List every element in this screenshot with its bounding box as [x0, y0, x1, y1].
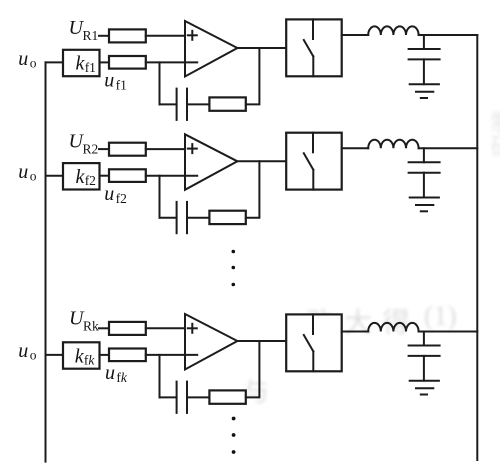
- wire: resistor to op-amp inverting input (minus lead): [146, 354, 197, 356]
- ellipsis dots below row k: [232, 417, 236, 454]
- svg-text:fk: fk: [116, 370, 128, 385]
- node u_o (output bus tap, row 2): [18, 161, 37, 184]
- svg-text:R2: R2: [83, 142, 99, 157]
- op-amp Ak: [185, 314, 237, 370]
- wire: bus to kfk block: [46, 354, 64, 356]
- ground: [410, 198, 439, 212]
- wire: capacitor to ground: [423, 59, 425, 84]
- svg-text:u: u: [18, 161, 28, 183]
- svg-text:u: u: [104, 183, 114, 205]
- wire: feedback resistor up to op-amp output: [246, 341, 260, 397]
- wire: inductor to right-hand bus: [419, 331, 478, 333]
- capacitor (output filter): [409, 49, 440, 59]
- wire: switch block to inductor: [342, 331, 369, 333]
- wire: capacitor to ground: [423, 173, 425, 198]
- ground: [410, 381, 439, 395]
- wire: bus to kf2 block: [46, 175, 64, 177]
- wire: inductor to right-hand bus: [419, 34, 478, 36]
- svg-text:u: u: [18, 48, 28, 70]
- wire: tap to feedback capacitor: [160, 217, 177, 219]
- wire: op-amp output to switch block: [237, 340, 286, 342]
- inductor L1: [368, 26, 418, 35]
- ellipsis dots between row 2 and row k: [232, 250, 236, 287]
- wire: resistor to op-amp noninverting input: [146, 327, 185, 329]
- gain block kf2: [63, 163, 100, 189]
- gain block kfk: [63, 342, 100, 368]
- resistor (u_f1 input): [109, 56, 146, 69]
- svg-text:f1: f1: [116, 78, 127, 93]
- capacitor C2 (feedback): [177, 202, 187, 233]
- resistor (U_R2 input): [109, 143, 146, 156]
- switch Sk (chopper block): [286, 314, 342, 371]
- wire: tap to feedback capacitor: [160, 396, 177, 398]
- capacitor Ck (feedback): [177, 382, 187, 413]
- capacitor C1 (feedback): [177, 89, 187, 120]
- resistor (u_fk input): [109, 349, 146, 362]
- svg-text:f2: f2: [116, 191, 127, 206]
- wire: resistor to op-amp noninverting input: [146, 148, 185, 150]
- resistor (feedback): [209, 97, 245, 110]
- svg-text:o: o: [30, 169, 37, 184]
- capacitor (output filter): [409, 162, 440, 172]
- node: feedback tap junction: [159, 62, 161, 104]
- wire: kf2 to resistor: [100, 175, 110, 177]
- resistor (U_Rk input): [109, 322, 146, 335]
- resistor (U_R1 input): [109, 29, 146, 42]
- op-amp A2: [185, 134, 237, 190]
- resistor (feedback): [209, 390, 245, 403]
- switch S1 (chopper block): [286, 19, 342, 76]
- wire: U_Rk label stub to resistor: [99, 327, 109, 329]
- wire: resistor to op-amp inverting input (minus lead): [146, 61, 197, 63]
- wire: U_R1 label stub to resistor: [99, 35, 109, 37]
- svg-text:f2: f2: [85, 173, 96, 188]
- wire: U_R2 label stub to resistor: [99, 148, 109, 150]
- label U_R2 (reference voltage): [69, 130, 99, 156]
- left vertical bus (u_o net): [45, 62, 47, 461]
- svg-text:f1: f1: [85, 60, 96, 75]
- ghost bleed-through text (background artifact): [306, 301, 420, 341]
- node: feedback tap junction: [159, 355, 161, 398]
- inductor Lk: [368, 323, 418, 332]
- op-amp A1: [185, 21, 237, 77]
- node u_o (output bus tap, row 1): [18, 48, 37, 71]
- wire: feedback resistor up to op-amp output: [246, 48, 260, 104]
- wire: bus to kf1 block: [46, 61, 64, 63]
- wire: feedback resistor up to op-amp output: [246, 161, 260, 217]
- wire: tap to feedback capacitor: [160, 103, 177, 105]
- wire: op-amp output to switch block: [237, 160, 286, 162]
- wire: kf1 to resistor: [100, 61, 110, 63]
- label u_f2 (feedback voltage): [104, 183, 127, 206]
- svg-text:u: u: [105, 362, 115, 384]
- svg-text:u: u: [104, 70, 114, 92]
- label U_R1 (reference voltage): [69, 17, 99, 43]
- ground: [410, 84, 439, 98]
- svg-text:Rk: Rk: [83, 319, 99, 334]
- svg-text:o: o: [30, 55, 37, 70]
- resistor (u_f2 input): [109, 169, 146, 182]
- svg-text:fk: fk: [84, 353, 96, 368]
- label u_fk (feedback voltage): [105, 362, 128, 385]
- gain block kf1: [63, 50, 100, 76]
- svg-text:u: u: [18, 340, 28, 362]
- resistor (feedback): [209, 211, 245, 224]
- wire: resistor to op-amp inverting input (minus lead): [146, 175, 197, 177]
- wire: capacitor to feedback resistor: [187, 217, 209, 219]
- wire: inductor to right-hand bus: [419, 147, 478, 149]
- wire: junction down to filter capacitor: [423, 148, 425, 162]
- wire: capacitor to ground: [423, 356, 425, 381]
- wire: capacitor to feedback resistor: [187, 103, 209, 105]
- node: feedback tap junction: [159, 176, 161, 218]
- wire: capacitor to feedback resistor: [187, 396, 209, 398]
- wire: resistor to op-amp noninverting input: [146, 35, 185, 37]
- node u_o (output bus tap, row k): [18, 340, 37, 363]
- wire: kfk to resistor: [100, 354, 110, 356]
- wire: junction down to filter capacitor: [423, 35, 425, 49]
- svg-text:R1: R1: [83, 28, 99, 43]
- label U_Rk (reference voltage): [69, 308, 99, 334]
- wire: junction down to filter capacitor: [423, 332, 425, 346]
- wire: switch block to inductor: [342, 147, 369, 149]
- svg-text:o: o: [30, 348, 37, 363]
- inductor L2: [368, 140, 418, 149]
- wire: switch block to inductor: [342, 34, 369, 36]
- capacitor (output filter): [409, 346, 440, 356]
- label u_f1 (feedback voltage): [104, 70, 127, 93]
- right vertical bus: [476, 35, 478, 460]
- wire: op-amp output to switch block: [237, 47, 286, 49]
- switch S2 (chopper block): [286, 133, 342, 190]
